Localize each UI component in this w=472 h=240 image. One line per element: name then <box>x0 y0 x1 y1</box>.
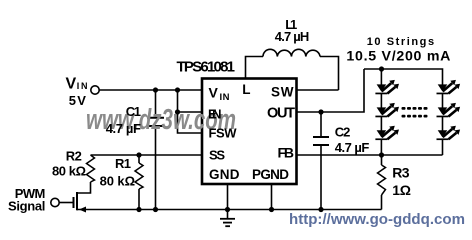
svg-text:Ω: Ω <box>400 182 411 198</box>
svg-text:C2: C2 <box>335 125 351 140</box>
svg-text:EN: EN <box>208 107 222 122</box>
svg-text:L: L <box>242 82 250 97</box>
svg-text:IN: IN <box>220 92 230 103</box>
svg-text:FSW: FSW <box>209 126 238 141</box>
svg-text:R1: R1 <box>115 156 131 171</box>
svg-text:V: V <box>209 84 219 100</box>
svg-text:FB: FB <box>278 145 295 161</box>
svg-text:Signal: Signal <box>8 199 45 214</box>
svg-text:80 kΩ: 80 kΩ <box>52 164 86 179</box>
svg-text:OUT: OUT <box>267 105 295 121</box>
svg-text:5: 5 <box>69 93 76 108</box>
svg-text:R3: R3 <box>392 165 410 181</box>
svg-text:SW: SW <box>271 85 294 100</box>
svg-text:4.7 µF: 4.7 µF <box>106 121 141 136</box>
svg-text:V: V <box>66 75 77 92</box>
svg-text:C1: C1 <box>126 104 141 119</box>
svg-text:SS: SS <box>209 148 225 163</box>
svg-text:R2: R2 <box>66 149 82 164</box>
svg-text:http://www.go-gddq.com: http://www.go-gddq.com <box>289 211 465 228</box>
svg-text:4.7 µF: 4.7 µF <box>335 140 370 155</box>
svg-text:V: V <box>77 93 86 108</box>
svg-text:10.5 V/200 mA: 10.5 V/200 mA <box>346 49 450 65</box>
svg-text:GND: GND <box>209 167 240 182</box>
svg-text:4.7 µH: 4.7 µH <box>275 29 310 44</box>
svg-text:IN: IN <box>77 81 88 91</box>
svg-text:80 kΩ: 80 kΩ <box>100 174 135 189</box>
svg-text:10 Strings: 10 Strings <box>367 36 434 48</box>
svg-text:TPS61081: TPS61081 <box>177 59 236 76</box>
svg-text:PGND: PGND <box>252 167 289 182</box>
